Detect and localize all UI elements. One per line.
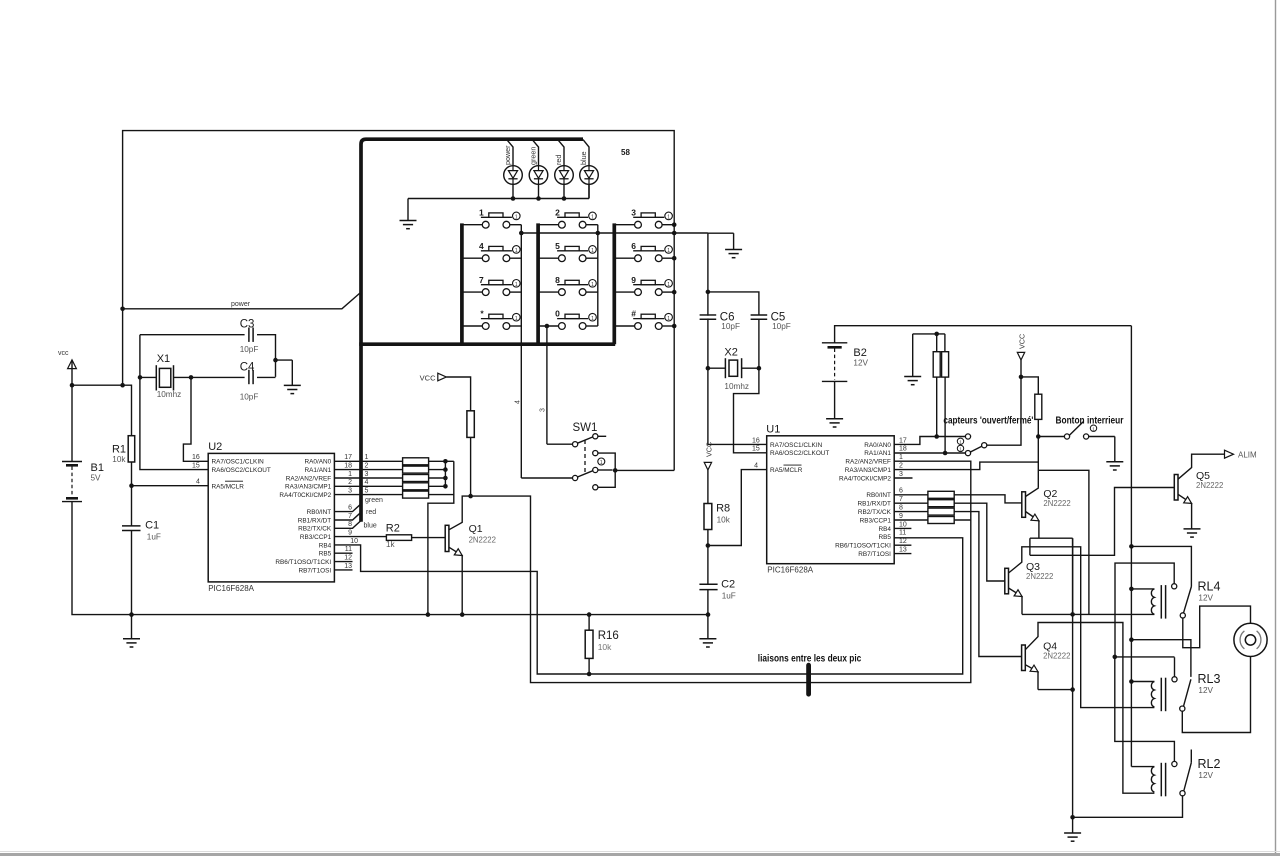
svg-text:2N2222: 2N2222 — [1196, 481, 1223, 490]
svg-text:X2: X2 — [724, 347, 737, 359]
svg-text:RB5: RB5 — [878, 534, 891, 541]
svg-text:R1: R1 — [112, 444, 126, 456]
svg-text:3: 3 — [899, 471, 903, 478]
svg-text:RL2: RL2 — [1198, 757, 1221, 771]
svg-text:4: 4 — [754, 462, 758, 469]
svg-text:blue: blue — [579, 151, 588, 165]
svg-text:R2: R2 — [386, 523, 400, 535]
svg-text:7: 7 — [899, 496, 903, 503]
svg-text:2: 2 — [365, 463, 369, 470]
svg-text:11: 11 — [345, 546, 352, 553]
svg-text:5: 5 — [365, 488, 369, 495]
svg-text:2N2222: 2N2222 — [1043, 652, 1070, 661]
svg-text:RA1/AN1: RA1/AN1 — [305, 467, 332, 474]
svg-text:red: red — [366, 509, 376, 516]
svg-text:10k: 10k — [598, 642, 612, 652]
svg-text:U2: U2 — [208, 441, 222, 453]
svg-text:8: 8 — [348, 521, 352, 528]
svg-text:10pF: 10pF — [240, 393, 259, 402]
svg-text:10: 10 — [899, 521, 907, 528]
svg-text:RL3: RL3 — [1198, 672, 1221, 686]
svg-text:RB4: RB4 — [319, 542, 332, 549]
svg-text:B2: B2 — [853, 347, 866, 359]
svg-text:Q1: Q1 — [469, 523, 483, 535]
svg-text:1: 1 — [515, 282, 518, 288]
svg-text:16: 16 — [192, 454, 200, 461]
svg-text:RA4/T0CKI/CMP2: RA4/T0CKI/CMP2 — [279, 492, 331, 499]
svg-text:4: 4 — [479, 241, 484, 251]
svg-text:U1: U1 — [766, 424, 780, 436]
svg-text:RA1/AN1: RA1/AN1 — [864, 450, 891, 457]
svg-text:C4: C4 — [240, 362, 255, 374]
svg-text:RB7/T1OSI: RB7/T1OSI — [299, 567, 332, 574]
svg-text:5V: 5V — [91, 474, 102, 483]
svg-text:10pF: 10pF — [721, 322, 740, 331]
svg-text:RB0/INT: RB0/INT — [307, 509, 332, 516]
svg-text:SW1: SW1 — [573, 422, 598, 434]
svg-text:RA6/OSC2/CLKOUT: RA6/OSC2/CLKOUT — [770, 450, 829, 457]
svg-text:RA7/OSC1/CLKIN: RA7/OSC1/CLKIN — [770, 442, 823, 449]
svg-text:12: 12 — [344, 555, 352, 562]
svg-text:RL4: RL4 — [1198, 579, 1221, 593]
svg-text:9: 9 — [631, 275, 636, 285]
svg-text:blue: blue — [364, 522, 377, 529]
svg-text:10pF: 10pF — [772, 322, 791, 331]
svg-text:2N2222: 2N2222 — [1043, 499, 1070, 508]
svg-text:RA3/AN3/CMP1: RA3/AN3/CMP1 — [285, 484, 332, 491]
svg-text:VCC: VCC — [420, 373, 436, 382]
svg-text:17: 17 — [344, 454, 352, 461]
svg-text:RB2/TX/CK: RB2/TX/CK — [858, 509, 892, 516]
svg-text:1: 1 — [667, 316, 670, 322]
svg-text:5: 5 — [555, 241, 560, 251]
svg-text:12V: 12V — [1198, 686, 1213, 695]
svg-text:R8: R8 — [716, 503, 730, 515]
svg-text:8: 8 — [899, 505, 903, 512]
svg-text:12V: 12V — [1198, 771, 1213, 780]
svg-text:RB5: RB5 — [319, 551, 332, 558]
svg-text:1: 1 — [591, 316, 594, 322]
svg-text:1: 1 — [348, 471, 352, 478]
svg-text:RB4: RB4 — [878, 526, 891, 533]
svg-text:RA0/AN0: RA0/AN0 — [305, 459, 332, 466]
svg-text:1uF: 1uF — [722, 592, 736, 601]
svg-text:6: 6 — [899, 488, 903, 495]
svg-text:RB6/T1OSO/T1CKI: RB6/T1OSO/T1CKI — [275, 559, 331, 566]
svg-text:RA2/AN2/VREF: RA2/AN2/VREF — [845, 459, 891, 466]
svg-text:1: 1 — [667, 248, 670, 254]
svg-text:R16: R16 — [598, 630, 619, 642]
svg-text:6: 6 — [348, 505, 352, 512]
svg-text:vcc: vcc — [58, 350, 69, 357]
svg-text:4: 4 — [196, 479, 200, 486]
svg-text:10: 10 — [350, 538, 358, 545]
svg-text:red: red — [554, 155, 563, 165]
svg-text:RA4/T0CKI/CMP2: RA4/T0CKI/CMP2 — [839, 475, 891, 482]
svg-text:RA7/OSC1/CLKIN: RA7/OSC1/CLKIN — [212, 459, 265, 466]
svg-text:1: 1 — [899, 454, 903, 461]
svg-text:7: 7 — [479, 275, 484, 285]
svg-text:RA0/AN0: RA0/AN0 — [864, 442, 891, 449]
svg-text:RB2/TX/CK: RB2/TX/CK — [298, 526, 332, 533]
svg-text:B1: B1 — [91, 462, 104, 474]
svg-text:10mhz: 10mhz — [724, 382, 749, 391]
svg-text:power: power — [231, 301, 251, 308]
svg-text:C3: C3 — [240, 319, 255, 331]
svg-text:58: 58 — [621, 148, 630, 157]
svg-text:12V: 12V — [853, 359, 868, 368]
svg-text:1: 1 — [591, 215, 594, 221]
svg-text:3: 3 — [540, 408, 547, 412]
svg-text:power: power — [503, 145, 512, 165]
svg-text:6: 6 — [631, 241, 636, 251]
svg-text:C1: C1 — [145, 520, 159, 532]
svg-text:RB3/CCP1: RB3/CCP1 — [860, 517, 892, 524]
svg-text:1: 1 — [591, 248, 594, 254]
svg-text:RA5/MCLR: RA5/MCLR — [770, 467, 803, 474]
svg-text:RB0/INT: RB0/INT — [866, 492, 891, 499]
svg-text:RB6/T1OSO/T1CKI: RB6/T1OSO/T1CKI — [835, 543, 891, 550]
svg-text:RB1/RX/DT: RB1/RX/DT — [298, 517, 331, 524]
svg-text:1: 1 — [515, 215, 518, 221]
svg-text:capteurs 'ouvert/fermé': capteurs 'ouvert/fermé' — [943, 415, 1033, 427]
svg-text:12: 12 — [899, 538, 907, 545]
svg-text:8: 8 — [555, 275, 560, 285]
svg-text:RA6/OSC2/CLKOUT: RA6/OSC2/CLKOUT — [212, 467, 271, 474]
svg-text:1: 1 — [667, 282, 670, 288]
svg-text:2: 2 — [348, 479, 352, 486]
svg-text:2N2222: 2N2222 — [469, 536, 496, 545]
svg-text:liaisons entre les deux pic: liaisons entre les deux pic — [758, 653, 862, 665]
svg-text:10k: 10k — [112, 455, 126, 464]
svg-text:7: 7 — [348, 513, 352, 520]
svg-text:1: 1 — [479, 207, 484, 217]
svg-text:10pF: 10pF — [240, 345, 259, 354]
svg-text:1uF: 1uF — [147, 533, 161, 542]
svg-text:2: 2 — [555, 207, 560, 217]
svg-text:0: 0 — [555, 309, 560, 319]
svg-text:1: 1 — [365, 454, 369, 461]
svg-text:10k: 10k — [717, 516, 731, 525]
svg-text:RA5/MCLR: RA5/MCLR — [212, 483, 245, 490]
svg-text:11: 11 — [899, 530, 906, 537]
svg-text:RB3/CCP1: RB3/CCP1 — [300, 534, 332, 541]
svg-text:ALIM: ALIM — [1238, 450, 1257, 459]
svg-text:16: 16 — [752, 437, 760, 444]
svg-text:1k: 1k — [386, 540, 396, 549]
svg-text:green: green — [529, 147, 538, 165]
svg-text:4: 4 — [365, 479, 369, 486]
svg-text:PIC16F628A: PIC16F628A — [208, 584, 254, 593]
svg-text:12V: 12V — [1198, 593, 1213, 602]
svg-text:green: green — [365, 497, 383, 504]
svg-text:1: 1 — [667, 215, 670, 221]
svg-text:13: 13 — [344, 563, 352, 570]
svg-text:RB7/T1OSI: RB7/T1OSI — [858, 551, 891, 558]
svg-text:3: 3 — [348, 488, 352, 495]
svg-text:13: 13 — [899, 547, 907, 554]
svg-text:RA3/AN3/CMP1: RA3/AN3/CMP1 — [845, 467, 892, 474]
svg-text:1: 1 — [600, 460, 603, 466]
svg-text:RA2/AN2/VREF: RA2/AN2/VREF — [286, 475, 332, 482]
svg-text:X1: X1 — [157, 353, 170, 365]
svg-text:9: 9 — [899, 513, 903, 520]
svg-text:3: 3 — [631, 207, 636, 217]
svg-text:1: 1 — [515, 248, 518, 254]
svg-text:#: # — [631, 309, 636, 319]
svg-text:RB1/RX/DT: RB1/RX/DT — [858, 501, 891, 508]
svg-text:2N2222: 2N2222 — [1026, 572, 1053, 581]
svg-text:18: 18 — [899, 446, 907, 453]
svg-text:1: 1 — [515, 316, 518, 322]
svg-text:1: 1 — [591, 282, 594, 288]
svg-text:17: 17 — [899, 437, 907, 444]
svg-text:9: 9 — [348, 530, 352, 537]
svg-text:PIC16F628A: PIC16F628A — [767, 566, 813, 575]
svg-text:C2: C2 — [721, 579, 735, 591]
svg-text:15: 15 — [752, 446, 760, 453]
svg-text:3: 3 — [365, 471, 369, 478]
svg-text:2: 2 — [899, 463, 903, 470]
svg-text:15: 15 — [192, 463, 200, 470]
svg-text:10mhz: 10mhz — [157, 390, 182, 399]
svg-text:Bonton interrieur: Bonton interrieur — [1056, 415, 1124, 427]
svg-text:18: 18 — [344, 463, 352, 470]
svg-text:4: 4 — [515, 400, 522, 404]
svg-text:VCC: VCC — [1018, 334, 1027, 349]
svg-text:VCC: VCC — [705, 442, 714, 457]
